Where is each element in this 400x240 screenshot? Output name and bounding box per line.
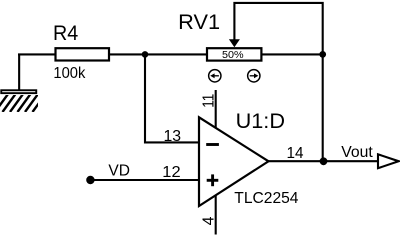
svg-text:Vout: Vout (341, 144, 373, 161)
svg-text:4: 4 (200, 216, 217, 225)
svg-text:50%: 50% (222, 50, 244, 61)
svg-text:U1:D: U1:D (236, 110, 285, 133)
svg-text:R4: R4 (53, 22, 78, 45)
svg-text:VD: VD (108, 163, 130, 180)
svg-text:TLC2254: TLC2254 (234, 190, 298, 207)
svg-text:12: 12 (162, 164, 180, 181)
svg-text:13: 13 (164, 128, 182, 145)
svg-text:14: 14 (287, 145, 304, 162)
svg-text:11: 11 (201, 94, 218, 108)
svg-text:RV1: RV1 (178, 11, 220, 34)
svg-text:100k: 100k (53, 65, 86, 82)
